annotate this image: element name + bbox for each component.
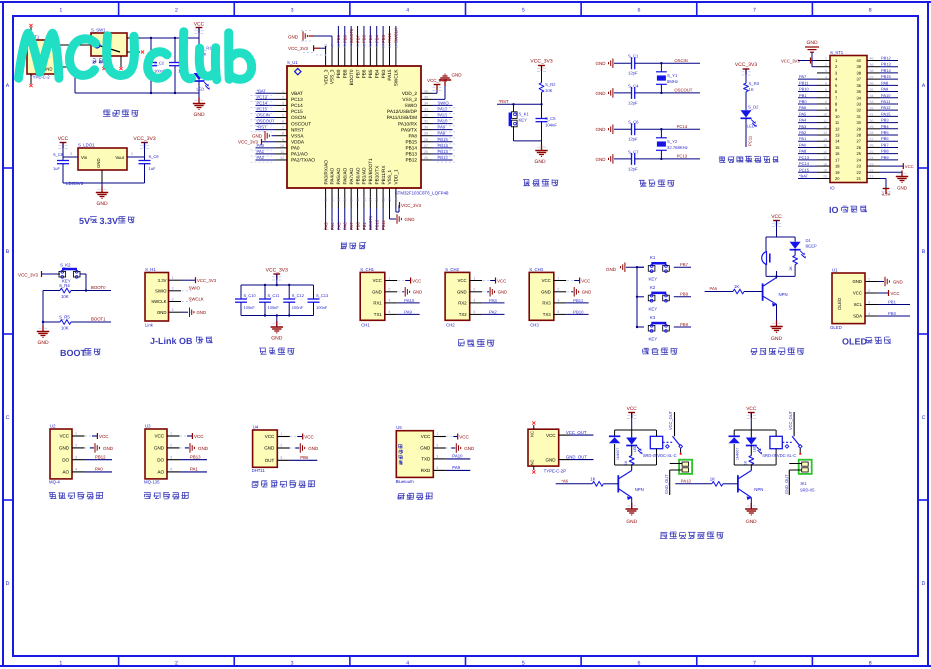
svg-text:S_C4: S_C4 bbox=[628, 84, 639, 89]
svg-text:1N4007: 1N4007 bbox=[616, 448, 620, 460]
svg-text:Bluetooth: Bluetooth bbox=[396, 480, 414, 485]
svg-text:VBAT: VBAT bbox=[291, 91, 303, 96]
svg-text:36: 36 bbox=[857, 84, 862, 88]
svg-text:VCC_3V3: VCC_3V3 bbox=[266, 268, 288, 274]
svg-text:23: 23 bbox=[870, 162, 874, 166]
svg-text:NC: NC bbox=[530, 431, 535, 437]
svg-text:VDD_3: VDD_3 bbox=[324, 69, 329, 84]
svg-text:GND: GND bbox=[97, 158, 102, 168]
svg-text:PB13: PB13 bbox=[405, 152, 417, 157]
svg-text:1uF: 1uF bbox=[149, 167, 156, 171]
svg-text:Vout: Vout bbox=[115, 156, 124, 161]
svg-text:15: 15 bbox=[337, 197, 341, 201]
svg-text:15: 15 bbox=[835, 146, 840, 150]
svg-text:GND: GND bbox=[596, 157, 606, 162]
svg-text:2: 2 bbox=[172, 287, 174, 291]
svg-text:20: 20 bbox=[369, 197, 373, 201]
svg-text:VCC_OUT: VCC_OUT bbox=[789, 411, 793, 430]
svg-text:10K: 10K bbox=[545, 89, 553, 94]
svg-text:KEY: KEY bbox=[649, 277, 658, 282]
svg-text:VCC_3V3: VCC_3V3 bbox=[238, 140, 258, 145]
svg-text:9: 9 bbox=[825, 107, 827, 111]
svg-text:PA2: PA2 bbox=[257, 156, 265, 161]
svg-text:KEY: KEY bbox=[649, 337, 658, 342]
svg-text:6: 6 bbox=[637, 660, 640, 666]
svg-text:PA9: PA9 bbox=[881, 87, 888, 91]
svg-text:*A6: *A6 bbox=[561, 479, 568, 484]
svg-text:PA7/AO: PA7/AO bbox=[349, 168, 354, 185]
svg-text:3.3V: 3.3V bbox=[882, 192, 891, 197]
svg-text:PB3: PB3 bbox=[881, 118, 889, 122]
svg-text:3: 3 bbox=[388, 299, 390, 303]
svg-text:SWIO: SWIO bbox=[189, 286, 201, 291]
svg-text:GND: GND bbox=[534, 159, 545, 165]
svg-text:PB10: PB10 bbox=[799, 87, 809, 91]
svg-text:3: 3 bbox=[75, 455, 77, 459]
svg-text:VCC_3V3: VCC_3V3 bbox=[530, 59, 552, 65]
svg-text:D: D bbox=[922, 581, 926, 587]
svg-text:31: 31 bbox=[870, 113, 874, 117]
svg-text:PA6: PA6 bbox=[343, 222, 348, 230]
svg-text:GND: GND bbox=[545, 458, 555, 463]
svg-text:GND: GND bbox=[59, 446, 69, 451]
svg-text:PA3: PA3 bbox=[324, 222, 329, 230]
svg-text:GND: GND bbox=[457, 290, 467, 295]
svg-text:D: D bbox=[6, 581, 10, 587]
svg-text:OLED: OLED bbox=[842, 337, 867, 347]
svg-text:PB6: PB6 bbox=[300, 456, 308, 461]
svg-text:BOOT0: BOOT0 bbox=[91, 286, 106, 291]
svg-text:GND: GND bbox=[498, 290, 508, 295]
svg-text:C: C bbox=[6, 415, 10, 421]
svg-text:K2: K2 bbox=[650, 285, 655, 290]
svg-text:PB8: PB8 bbox=[680, 292, 688, 297]
svg-text:GND: GND bbox=[96, 201, 107, 207]
svg-text:PA10: PA10 bbox=[881, 94, 891, 98]
svg-text:2: 2 bbox=[436, 444, 438, 448]
svg-text:PA3/RX/AO: PA3/RX/AO bbox=[324, 160, 329, 185]
svg-text:4: 4 bbox=[825, 76, 827, 80]
svg-text:VCC_3V3: VCC_3V3 bbox=[735, 62, 757, 68]
svg-text:S_C11: S_C11 bbox=[268, 294, 280, 298]
svg-text:1K: 1K bbox=[734, 285, 739, 290]
svg-text:PA5: PA5 bbox=[337, 222, 342, 230]
svg-text:GND: GND bbox=[596, 91, 606, 96]
svg-text:29: 29 bbox=[870, 125, 874, 129]
svg-text:6: 6 bbox=[835, 90, 837, 94]
svg-text:3: 3 bbox=[172, 297, 174, 301]
svg-text:28: 28 bbox=[424, 138, 428, 142]
svg-text:37: 37 bbox=[870, 76, 874, 80]
svg-text:IO: IO bbox=[829, 206, 839, 216]
svg-text:PB12: PB12 bbox=[95, 455, 106, 460]
svg-text:4: 4 bbox=[406, 660, 409, 666]
svg-text:U5: U5 bbox=[396, 426, 402, 431]
svg-text:18: 18 bbox=[835, 164, 840, 168]
svg-text:1: 1 bbox=[172, 276, 174, 280]
svg-text:31: 31 bbox=[424, 120, 428, 124]
svg-text:41: 41 bbox=[369, 44, 373, 48]
svg-text:*RST: *RST bbox=[498, 100, 508, 105]
svg-text:2: 2 bbox=[825, 63, 827, 67]
svg-text:PA0: PA0 bbox=[799, 143, 806, 147]
svg-text:6: 6 bbox=[637, 7, 640, 13]
svg-text:GND: GND bbox=[154, 446, 164, 451]
svg-text:VCC: VCC bbox=[627, 406, 637, 411]
svg-text:GND: GND bbox=[893, 280, 903, 285]
svg-text:3: 3 bbox=[835, 71, 837, 75]
svg-text:14: 14 bbox=[835, 140, 840, 144]
svg-text:OSCIN: OSCIN bbox=[291, 115, 306, 120]
svg-text:17: 17 bbox=[823, 156, 827, 160]
svg-text:DHT11: DHT11 bbox=[252, 468, 265, 473]
svg-text:7: 7 bbox=[835, 96, 837, 100]
svg-text:GND: GND bbox=[264, 446, 274, 451]
svg-text:VCC_3V3: VCC_3V3 bbox=[401, 203, 421, 208]
svg-text:31: 31 bbox=[857, 115, 862, 119]
svg-text:22: 22 bbox=[857, 171, 862, 175]
svg-text:GND: GND bbox=[582, 290, 592, 295]
svg-text:3: 3 bbox=[557, 299, 559, 303]
svg-text:9: 9 bbox=[282, 138, 284, 142]
svg-text:PA10: PA10 bbox=[438, 119, 448, 124]
svg-text:GND: GND bbox=[308, 446, 318, 451]
svg-text:3: 3 bbox=[291, 660, 294, 666]
svg-text:7: 7 bbox=[825, 94, 827, 98]
svg-text:GND: GND bbox=[420, 446, 430, 451]
svg-text:27: 27 bbox=[857, 140, 862, 144]
svg-text:SDA: SDA bbox=[853, 314, 862, 319]
svg-text:VCC: VCC bbox=[265, 435, 275, 440]
svg-text:PA6: PA6 bbox=[799, 106, 806, 110]
svg-text:PB1/AO: PB1/AO bbox=[362, 167, 367, 184]
svg-text:NC: NC bbox=[530, 459, 535, 465]
svg-text:C: C bbox=[922, 415, 926, 421]
svg-text:2: 2 bbox=[835, 65, 837, 69]
svg-text:PB5: PB5 bbox=[881, 131, 889, 135]
svg-text:S_C10: S_C10 bbox=[244, 294, 256, 298]
svg-text:22: 22 bbox=[382, 197, 386, 201]
svg-text:VCC: VCC bbox=[58, 136, 69, 142]
svg-text:6: 6 bbox=[282, 120, 284, 124]
svg-text:GND: GND bbox=[198, 446, 208, 451]
svg-text:VCC: VCC bbox=[905, 165, 914, 170]
svg-text:S_Y1: S_Y1 bbox=[667, 74, 677, 79]
svg-text:4: 4 bbox=[557, 310, 559, 314]
svg-text:LED: LED bbox=[753, 445, 757, 452]
svg-text:19: 19 bbox=[362, 197, 366, 201]
svg-text:STM32F103C8T6_LQFP48: STM32F103C8T6_LQFP48 bbox=[395, 191, 449, 196]
svg-text:PA1: PA1 bbox=[257, 150, 265, 155]
svg-text:S_ST1: S_ST1 bbox=[830, 51, 843, 56]
svg-text:PA11/USB/DM: PA11/USB/DM bbox=[387, 115, 417, 120]
svg-text:VCC: VCC bbox=[542, 279, 551, 284]
svg-text:VCC: VCC bbox=[891, 292, 900, 297]
svg-text:S_C13: S_C13 bbox=[316, 294, 328, 298]
svg-text:8: 8 bbox=[869, 660, 872, 666]
svg-text:3: 3 bbox=[868, 300, 870, 304]
svg-text:3.3V: 3.3V bbox=[158, 278, 167, 283]
svg-text:VCC: VCC bbox=[99, 434, 109, 439]
svg-text:1: 1 bbox=[170, 432, 172, 436]
svg-text:10: 10 bbox=[835, 115, 840, 119]
svg-text:LDO3V3: LDO3V3 bbox=[66, 181, 83, 186]
svg-text:PB3: PB3 bbox=[381, 35, 386, 43]
svg-text:VCC: VCC bbox=[194, 434, 204, 439]
svg-text:OSCIN: OSCIN bbox=[257, 113, 270, 118]
svg-text:PB12: PB12 bbox=[438, 156, 448, 161]
svg-text:CH1: CH1 bbox=[361, 323, 370, 328]
svg-text:S_U1: S_U1 bbox=[287, 61, 298, 66]
svg-text:GND: GND bbox=[103, 446, 113, 451]
svg-text:PC13: PC13 bbox=[257, 95, 268, 100]
svg-text:1: 1 bbox=[868, 277, 870, 281]
svg-text:3: 3 bbox=[282, 102, 284, 106]
svg-text:2: 2 bbox=[388, 288, 390, 292]
svg-text:S_H1: S_H1 bbox=[145, 268, 156, 273]
svg-text:PA15: PA15 bbox=[388, 33, 393, 43]
svg-text:SWIO: SWIO bbox=[404, 103, 417, 108]
svg-text:20: 20 bbox=[823, 175, 827, 179]
svg-text:28: 28 bbox=[870, 131, 874, 135]
svg-text:PB12: PB12 bbox=[881, 56, 891, 60]
svg-text:14: 14 bbox=[823, 138, 827, 142]
svg-text:S_C5: S_C5 bbox=[545, 117, 556, 122]
svg-text:VCC: VCC bbox=[412, 279, 421, 284]
svg-text:29: 29 bbox=[857, 127, 862, 131]
svg-text:30: 30 bbox=[857, 121, 862, 125]
svg-text:PA12: PA12 bbox=[438, 107, 448, 112]
svg-text:PA1/AO: PA1/AO bbox=[291, 152, 308, 157]
svg-text:1: 1 bbox=[388, 276, 390, 280]
svg-text:3: 3 bbox=[473, 299, 475, 303]
svg-text:1: 1 bbox=[436, 432, 438, 436]
svg-text:39: 39 bbox=[870, 63, 874, 67]
svg-text:18: 18 bbox=[823, 162, 827, 166]
svg-text:1K: 1K bbox=[624, 461, 628, 465]
svg-text:GND_OUT: GND_OUT bbox=[566, 455, 587, 460]
svg-text:SRD-05VDC-SL-C: SRD-05VDC-SL-C bbox=[643, 454, 677, 459]
svg-text:8: 8 bbox=[835, 102, 837, 106]
svg-text:21: 21 bbox=[857, 177, 862, 181]
svg-text:3: 3 bbox=[436, 455, 438, 459]
svg-text:10K: 10K bbox=[61, 326, 69, 331]
svg-text:GND: GND bbox=[596, 62, 606, 67]
svg-text:12pF: 12pF bbox=[628, 167, 638, 172]
svg-text:PA8: PA8 bbox=[438, 131, 446, 136]
svg-text:1K: 1K bbox=[590, 477, 595, 482]
svg-text:32: 32 bbox=[870, 107, 874, 111]
svg-text:34: 34 bbox=[857, 96, 862, 100]
svg-text:VDD_2: VDD_2 bbox=[402, 91, 417, 96]
svg-text:VCC_3V3: VCC_3V3 bbox=[427, 78, 447, 83]
svg-text:GND: GND bbox=[806, 40, 817, 46]
svg-text:PA10: PA10 bbox=[404, 299, 414, 304]
svg-text:S_R3: S_R3 bbox=[749, 82, 760, 87]
svg-text:PB6: PB6 bbox=[362, 35, 367, 43]
svg-text:8: 8 bbox=[869, 7, 872, 13]
svg-text:PA11: PA11 bbox=[438, 113, 448, 118]
svg-text:VCC: VCC bbox=[546, 433, 556, 438]
svg-text:PB1: PB1 bbox=[888, 300, 896, 305]
svg-text:11: 11 bbox=[280, 150, 284, 154]
svg-text:SWIO: SWIO bbox=[438, 101, 449, 106]
svg-text:1: 1 bbox=[75, 432, 77, 436]
svg-text:PA5: PA5 bbox=[799, 112, 806, 116]
svg-text:GND: GND bbox=[452, 73, 462, 78]
svg-text:OLED: OLED bbox=[837, 298, 842, 310]
svg-text:PC13: PC13 bbox=[291, 97, 303, 102]
svg-text:GND: GND bbox=[405, 217, 415, 222]
svg-text:PA8: PA8 bbox=[881, 81, 888, 85]
svg-text:PB10/TX: PB10/TX bbox=[375, 166, 380, 185]
svg-text:TXD: TXD bbox=[421, 457, 430, 462]
svg-text:27: 27 bbox=[870, 138, 874, 142]
svg-text:1: 1 bbox=[557, 276, 559, 280]
svg-text:SWCLK: SWCLK bbox=[394, 28, 399, 43]
svg-text:AO: AO bbox=[62, 470, 69, 475]
svg-text:A: A bbox=[6, 83, 10, 89]
svg-text:35: 35 bbox=[857, 90, 862, 94]
svg-text:100nF: 100nF bbox=[292, 306, 303, 310]
svg-text:4: 4 bbox=[473, 310, 475, 314]
svg-text:16: 16 bbox=[835, 152, 840, 156]
svg-text:PB0: PB0 bbox=[888, 311, 896, 316]
svg-text:GND: GND bbox=[413, 290, 423, 295]
svg-text:27: 27 bbox=[424, 144, 428, 148]
svg-text:A: A bbox=[922, 83, 926, 89]
svg-text:1: 1 bbox=[473, 276, 475, 280]
svg-text:12: 12 bbox=[280, 156, 284, 160]
svg-text:SCL: SCL bbox=[854, 303, 863, 308]
svg-text:GND_OUT: GND_OUT bbox=[785, 474, 789, 494]
svg-text:TX2: TX2 bbox=[459, 313, 467, 318]
svg-text:PB14: PB14 bbox=[405, 146, 417, 151]
svg-text:KEY: KEY bbox=[62, 279, 71, 284]
svg-text:3: 3 bbox=[825, 69, 827, 73]
svg-text:5: 5 bbox=[835, 84, 837, 88]
svg-text:VCC: VCC bbox=[194, 22, 205, 28]
svg-text:PB6: PB6 bbox=[881, 137, 889, 141]
svg-text:10K: 10K bbox=[61, 295, 69, 300]
svg-text:S_CH3: S_CH3 bbox=[529, 268, 543, 273]
svg-text:PB9: PB9 bbox=[336, 69, 341, 78]
svg-text:VSSA: VSSA bbox=[291, 134, 304, 139]
svg-text:S_K2: S_K2 bbox=[60, 263, 71, 268]
svg-text:S_C8: S_C8 bbox=[53, 153, 63, 157]
svg-text:S_SW1: S_SW1 bbox=[91, 28, 106, 33]
svg-text:PB14: PB14 bbox=[438, 143, 448, 148]
svg-text:KEY: KEY bbox=[649, 307, 658, 312]
svg-text:CH2: CH2 bbox=[446, 323, 455, 328]
svg-text:S_LDO1: S_LDO1 bbox=[78, 143, 95, 148]
svg-text:VDDA: VDDA bbox=[291, 140, 304, 145]
svg-text:40: 40 bbox=[857, 59, 862, 63]
svg-text:PA10/RX: PA10/RX bbox=[398, 122, 417, 127]
svg-text:104nF: 104nF bbox=[545, 123, 557, 128]
svg-text:K3: K3 bbox=[650, 316, 655, 321]
svg-text:VCC: VCC bbox=[459, 435, 469, 440]
svg-text:GND: GND bbox=[606, 267, 616, 272]
svg-text:4: 4 bbox=[172, 308, 174, 312]
svg-text:8: 8 bbox=[282, 132, 284, 136]
svg-text:PA2: PA2 bbox=[489, 310, 497, 315]
svg-text:RXD: RXD bbox=[421, 469, 431, 474]
svg-text:PA4/AO: PA4/AO bbox=[330, 168, 335, 185]
svg-text:PA9: PA9 bbox=[452, 466, 460, 471]
svg-text:PA3: PA3 bbox=[799, 125, 806, 129]
svg-text:S_C1: S_C1 bbox=[628, 54, 639, 59]
svg-text:33: 33 bbox=[857, 102, 862, 106]
svg-text:PA12: PA12 bbox=[881, 106, 891, 110]
svg-text:PB0: PB0 bbox=[799, 100, 807, 104]
svg-text:34: 34 bbox=[870, 94, 874, 98]
svg-text:4: 4 bbox=[868, 312, 870, 316]
svg-text:JK1: JK1 bbox=[800, 482, 807, 487]
svg-text:GND: GND bbox=[746, 519, 757, 524]
svg-text:PA15: PA15 bbox=[387, 69, 392, 80]
svg-text:6: 6 bbox=[825, 88, 827, 92]
svg-text:23: 23 bbox=[388, 197, 392, 201]
svg-text:PB0/AO: PB0/AO bbox=[355, 167, 360, 184]
svg-text:VCC: VCC bbox=[59, 434, 69, 439]
svg-text:U4: U4 bbox=[253, 425, 259, 430]
svg-text:1: 1 bbox=[280, 432, 282, 436]
svg-text:PC15: PC15 bbox=[291, 109, 303, 114]
svg-text:VCC: VCC bbox=[853, 291, 862, 296]
svg-text:PC11: PC11 bbox=[748, 136, 753, 146]
svg-text:2: 2 bbox=[131, 152, 133, 156]
svg-text:VCC_3V3: VCC_3V3 bbox=[288, 46, 308, 51]
svg-text:VCC_3V3: VCC_3V3 bbox=[197, 279, 216, 284]
svg-text:S_R2: S_R2 bbox=[545, 83, 556, 88]
svg-text:PA7: PA7 bbox=[350, 222, 355, 230]
svg-text:U3: U3 bbox=[145, 424, 151, 429]
svg-text:2: 2 bbox=[175, 7, 178, 13]
svg-text:12pF: 12pF bbox=[628, 71, 638, 76]
svg-text:PA8: PA8 bbox=[408, 134, 417, 139]
svg-text:DO: DO bbox=[62, 458, 69, 463]
svg-text:30: 30 bbox=[870, 119, 874, 123]
svg-text:PB13: PB13 bbox=[881, 63, 891, 67]
svg-text:35: 35 bbox=[870, 88, 874, 92]
svg-text:10: 10 bbox=[280, 144, 284, 148]
svg-text:OSCOUT: OSCOUT bbox=[291, 122, 311, 127]
svg-text:23: 23 bbox=[857, 164, 862, 168]
svg-text:35: 35 bbox=[424, 95, 428, 99]
svg-text:PB1: PB1 bbox=[799, 94, 807, 98]
svg-text:4: 4 bbox=[170, 468, 172, 472]
svg-text:2: 2 bbox=[170, 444, 172, 448]
svg-text:NPN: NPN bbox=[635, 488, 644, 493]
svg-text:S_C6: S_C6 bbox=[628, 120, 639, 125]
svg-text:GND: GND bbox=[271, 336, 282, 342]
svg-text:U2: U2 bbox=[50, 424, 56, 429]
svg-text:J-Link OB: J-Link OB bbox=[150, 337, 193, 347]
svg-text:24: 24 bbox=[857, 158, 862, 162]
svg-text:4: 4 bbox=[436, 466, 438, 470]
svg-text:5: 5 bbox=[825, 82, 827, 86]
svg-text:PB7: PB7 bbox=[680, 263, 688, 268]
svg-text:11: 11 bbox=[835, 121, 839, 125]
svg-text:12pF: 12pF bbox=[628, 137, 638, 142]
svg-text:PA2: PA2 bbox=[799, 131, 806, 135]
svg-text:GND: GND bbox=[252, 134, 262, 139]
svg-text:VCC_OUT: VCC_OUT bbox=[566, 430, 587, 435]
svg-text:PB15: PB15 bbox=[405, 140, 417, 145]
svg-text:OSCIN: OSCIN bbox=[674, 59, 687, 64]
svg-text:25: 25 bbox=[424, 156, 428, 160]
